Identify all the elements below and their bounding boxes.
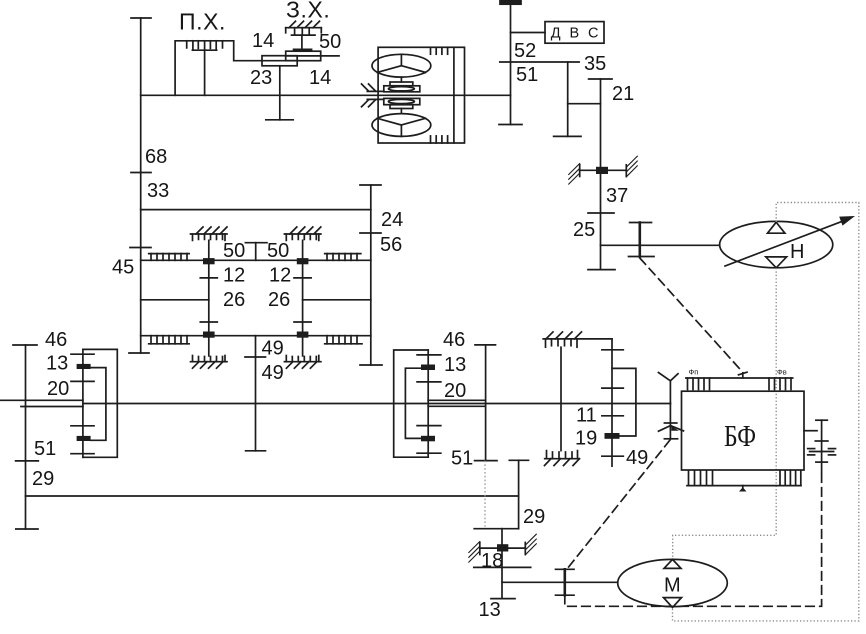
hub: lower wide block with roller: [384, 98, 420, 104]
shaft: far left vertical 46/51: [25, 345, 27, 529]
bearing tick: gear 25 on pump drive shaft: [588, 212, 614, 214]
gear teeth: БФ bottom right: [780, 470, 801, 485]
bearing tick: output shaft top: [816, 419, 827, 421]
coupling: center T between 50 gears: [245, 243, 267, 261]
svg-text:33: 33: [147, 180, 169, 202]
gear ПХ comb: [187, 41, 223, 50]
bearing tick: top of left shaft: [131, 17, 151, 19]
gear teeth line: БФ bottom: [687, 485, 801, 487]
shaft: gearbox output vertical 49: [255, 336, 257, 451]
shaft: gear 18 vertical: [501, 529, 503, 599]
svg-text:19: 19: [575, 428, 597, 450]
wire: link to engine box: [511, 32, 546, 34]
gear comb: upper shaft left: [149, 254, 189, 261]
control linkage: motor coupling to output shaft (dashed): [565, 473, 822, 607]
synchronizer: left upper: [77, 364, 91, 369]
shaft: output shaft right: [821, 420, 823, 472]
bearing tick: bottom of engine shaft: [499, 124, 522, 126]
svg-text:46: 46: [45, 329, 67, 351]
svg-text:Фп: Фп: [689, 368, 699, 377]
gear tick: 24/56 separator: [360, 232, 381, 234]
svg-text:35: 35: [584, 53, 606, 75]
svg-text:12: 12: [223, 265, 245, 287]
wire: thin dotted shaft continuation: [484, 461, 486, 529]
shaft: main output axle: [83, 403, 671, 405]
motor М: hydraulic motor ellipse: [618, 559, 728, 606]
wire: main axis from left shaft to engine shaft: [141, 94, 511, 96]
shaft: gearbox lower countershaft: [141, 335, 371, 337]
synchronizer: right upper: [421, 365, 435, 371]
gear teeth: БФ top left: [688, 378, 710, 390]
wire: hollow axle lower line left: [21, 406, 83, 408]
svg-text:20: 20: [47, 378, 69, 400]
bearing: output shaft wall mount: [808, 449, 836, 455]
clutch block 23: [262, 56, 297, 66]
bracket: left clutch outer C: [83, 349, 117, 457]
gear mesh line 52/51-35: [500, 61, 579, 63]
svg-text:Н: Н: [790, 241, 804, 263]
svg-text:В: В: [570, 26, 580, 42]
control linkage: clutch fork to motor coupling (dashed): [565, 440, 670, 572]
bearing tick: top of far left shaft: [13, 344, 37, 346]
pump Н: variable displacement pump ellipse: [720, 221, 833, 267]
anchor: БФ bottom center ground: [739, 486, 747, 492]
hydraulic line: pump bottom to motor top (dotted): [673, 268, 777, 559]
gear 11 tick: [602, 415, 623, 417]
gear mount 50 right with hatching: [284, 227, 321, 240]
svg-text:П.Х.: П.Х.: [179, 9, 226, 35]
shaft: big gear of 11/19 block: [560, 347, 562, 450]
shaft line through clutch 14-50: [286, 55, 339, 57]
housing: torque converter inner wall: [453, 47, 455, 143]
shaft: stem below clutch 23: [279, 66, 281, 120]
wire: gear 26 right link: [303, 299, 371, 301]
gear teeth: case bottom: [431, 136, 448, 143]
svg-text:51: 51: [34, 438, 56, 460]
terminal tick at БФ top: [739, 372, 748, 375]
svg-text:13: 13: [444, 354, 466, 376]
svg-text:БФ: БФ: [724, 418, 756, 453]
engine box ДВС: [545, 22, 604, 44]
wire: hollow axle upper line right: [428, 399, 485, 401]
gear teeth line: БФ top: [686, 377, 793, 379]
shaft: gear 35 stem: [567, 62, 569, 136]
gear tick lower: [71, 425, 94, 427]
shaft: intermediate axle 29: [26, 495, 519, 497]
gear tick: upper on 11/19 shaft: [602, 387, 623, 389]
gear comb: upper shaft right: [325, 254, 361, 261]
svg-text:13: 13: [46, 353, 68, 375]
bearing tick: bottom of left shaft: [129, 352, 149, 354]
svg-text:45: 45: [112, 257, 134, 279]
support: torque converter left mount lower: [362, 99, 384, 106]
gear mount 50 left with hatching: [191, 227, 228, 240]
shaft: gearbox upper countershaft: [141, 259, 371, 261]
gear tick lower right: [417, 425, 441, 427]
wire: top link of 11/19 block: [543, 338, 612, 340]
bracket: right clutch inner U: [405, 368, 421, 438]
arrow: variable displacement arrow through pump: [725, 216, 855, 266]
coupling: motor shaft coupling: [556, 569, 575, 595]
svg-text:29: 29: [32, 468, 54, 490]
port triangle: pump top: [768, 222, 785, 233]
gear teeth: БФ top right: [769, 378, 791, 390]
synchronizer: right lower: [421, 436, 435, 442]
wire: gear 26 left link: [141, 299, 209, 301]
shaft: vertical 46/51 right: [485, 345, 487, 461]
svg-text:56: 56: [380, 234, 402, 256]
box: БФ side clutch unit: [682, 391, 805, 470]
hub: upper wide block with roller: [384, 86, 420, 92]
synchronizer: left lower: [77, 436, 91, 441]
svg-text:23: 23: [250, 67, 272, 89]
shaft: 11/19 gear shaft: [611, 339, 613, 466]
svg-text:13: 13: [479, 599, 501, 621]
bearing tick: top of gear-18 feed shaft: [509, 459, 528, 461]
bearing tick: bottom of pump drive shaft: [588, 269, 615, 271]
fork: gear selector fork on БФ input: [658, 373, 678, 404]
wire: link into gear 18 shaft: [474, 528, 518, 530]
bearing tick: bottom of gear 35 stem: [554, 135, 581, 137]
bracket: right clutch outer C: [394, 350, 429, 457]
shaft: left planet gear vertical: [208, 240, 210, 356]
gear 49 tick: [602, 455, 623, 457]
gear comb: lower shaft right: [325, 336, 362, 344]
gear 49 tick: [245, 356, 266, 358]
bearing tick: bottom of far left shaft: [16, 528, 38, 530]
hub: upper right mesh block: [297, 258, 309, 264]
hydraulic line: pump top to motor bottom (dotted loop): [673, 203, 859, 621]
gear 46 tick right: [417, 354, 441, 356]
gear mount lower left with hatching: [191, 356, 228, 369]
port triangle: motor top: [664, 559, 681, 568]
svg-text:49: 49: [262, 362, 284, 384]
bracket: left clutch inner U: [91, 368, 106, 441]
gear 12 tick left: [200, 277, 217, 279]
shaft line through clutch 23: [262, 60, 297, 62]
svg-text:46: 46: [443, 329, 465, 351]
wire: hollow axle lower line right: [428, 405, 485, 407]
bearing: wall support on gear 18 shaft: [469, 534, 537, 562]
shaft: ПХ gear stem: [204, 50, 206, 95]
bearing tick: bottom of 24/56 shaft: [360, 364, 382, 366]
hub: upper small block: [390, 82, 413, 86]
shaft: pump wheel stem: [400, 77, 402, 82]
svg-text:51: 51: [516, 64, 538, 86]
shaft: turbine wheel stem: [400, 109, 402, 114]
shaft: left main vertical shaft: [140, 18, 142, 353]
svg-text:50: 50: [267, 240, 289, 262]
svg-text:51: 51: [451, 448, 473, 470]
shaft: right planet gear vertical: [302, 240, 304, 356]
svg-text:52: 52: [514, 40, 536, 62]
wire: 35 to 21 shaft link: [568, 103, 601, 105]
svg-text:50: 50: [223, 240, 245, 262]
gear mount lower right with hatching: [284, 356, 321, 369]
bearing tick: bottom of 49 shaft: [246, 450, 266, 452]
bearing tick: output shaft middle: [815, 440, 828, 442]
bearing tick: top of 24/56 shaft: [360, 184, 381, 186]
gear ЗХ mount with hatching: [286, 21, 322, 35]
gear 49 upper mount with hatching: [546, 332, 582, 347]
port triangle: pump bottom: [766, 257, 787, 268]
bearing tick: top of 11/19 shaft: [602, 349, 623, 351]
coupling: pump shaft coupling: [629, 223, 655, 257]
wire: motor output shaft: [502, 581, 618, 583]
gear 13 tick: [71, 380, 94, 382]
svg-text:С: С: [588, 26, 598, 42]
svg-text:12: 12: [269, 265, 291, 287]
shaft: pump drive shaft 21/37/25: [600, 79, 602, 270]
svg-text:26: 26: [268, 289, 290, 311]
hub: lower right mesh block: [297, 332, 309, 338]
clutch block 14-50: [286, 51, 321, 61]
bearing tick: 68/33 separator on left shaft: [131, 172, 151, 174]
shaft: right clutch gear stack: [427, 350, 429, 457]
hub: block on pump drive shaft: [596, 167, 608, 174]
svg-text:20: 20: [444, 380, 466, 402]
clutch: safety clutch on БФ input: [659, 404, 684, 439]
gear 51 tick: [71, 453, 94, 455]
wheel: torque converter pump wheel (top ellipse): [372, 54, 431, 77]
svg-text:14: 14: [252, 30, 274, 52]
gear teeth: case top: [431, 47, 448, 54]
gear 26 tick right: [294, 321, 311, 323]
gear teeth: БФ bottom left: [689, 470, 713, 485]
shaft: left clutch gear stack: [82, 349, 84, 457]
wire: forward-drive gear linkage path: [175, 41, 262, 96]
wheel: torque converter turbine wheel (bottom ellipse): [372, 114, 431, 137]
hub: lower small block: [390, 105, 413, 109]
svg-text:14: 14: [309, 67, 331, 89]
support: torque converter left mount upper: [362, 84, 384, 91]
hub flange on clutch 14-50: [294, 48, 311, 51]
shaft: vertical to gear 18: [518, 460, 520, 528]
hub: lower left mesh block: [203, 332, 215, 338]
svg-text:Д: Д: [551, 26, 561, 42]
gear 18 mesh line: [474, 566, 531, 568]
shaft: engine shaft 52/51: [510, 3, 512, 125]
housing: torque converter case: [378, 47, 464, 143]
shaft: gearbox right vertical 24/56: [370, 185, 372, 365]
hub: block on gear 18 shaft: [497, 544, 508, 551]
gear 12 tick right: [294, 277, 311, 279]
bracket: sliding gear selector 11/19: [612, 368, 636, 436]
svg-text:21: 21: [612, 83, 634, 105]
svg-text:26: 26: [223, 289, 245, 311]
gear 46 tick: [71, 353, 94, 355]
gear 13 tick right: [417, 381, 441, 383]
bearing tick: top of pump drive shaft: [589, 78, 612, 80]
svg-text:37: 37: [606, 185, 628, 207]
svg-text:11: 11: [576, 405, 597, 427]
svg-text:50: 50: [319, 31, 341, 53]
wire: hollow axle upper line left: [0, 399, 83, 401]
gear 19 hub block: [605, 433, 620, 439]
bearing tick: bottom of clutch 23 stem: [266, 119, 293, 121]
bearing tick: top of right 46 shaft: [475, 344, 496, 346]
svg-text:68: 68: [145, 146, 167, 168]
svg-text:25: 25: [573, 219, 595, 241]
control linkage: pump coupling to БФ (dashed): [640, 258, 743, 372]
gear comb: lower shaft left: [149, 336, 189, 344]
bearing tick: bottom of gear 18 shaft: [491, 598, 515, 600]
gear 51 tick on right shaft: [475, 460, 497, 462]
svg-text:Фв: Фв: [777, 368, 787, 377]
gear 51 tick right: [417, 452, 441, 454]
bearing: wall support on pump drive shaft: [569, 156, 638, 184]
svg-text:24: 24: [381, 209, 403, 231]
svg-text:29: 29: [523, 506, 545, 528]
wire: pump drive shaft to pump: [601, 244, 720, 246]
svg-text:М: М: [664, 575, 681, 597]
svg-text:18: 18: [481, 550, 503, 572]
wire: gearbox top cross link: [141, 209, 371, 211]
gear 26 tick left: [200, 321, 217, 323]
wire: stub at БФ top center: [742, 373, 744, 378]
wire: БФ output to final drive: [804, 430, 817, 432]
bearing tick: gear 45 on left shaft: [130, 247, 151, 249]
bearing tick: output shaft bottom: [816, 461, 827, 463]
svg-text:49: 49: [626, 447, 648, 469]
svg-text:З.Х.: З.Х.: [286, 0, 330, 23]
gear 51 tick on far left shaft: [16, 460, 39, 462]
svg-text:49: 49: [262, 338, 284, 360]
flywheel block at top: [500, 0, 521, 4]
gear 49 lower mount with hatching: [545, 451, 580, 466]
port triangle: motor bottom: [664, 598, 682, 608]
shaft: ЗХ gear stem: [301, 35, 303, 49]
hub: upper left mesh block: [203, 258, 215, 264]
